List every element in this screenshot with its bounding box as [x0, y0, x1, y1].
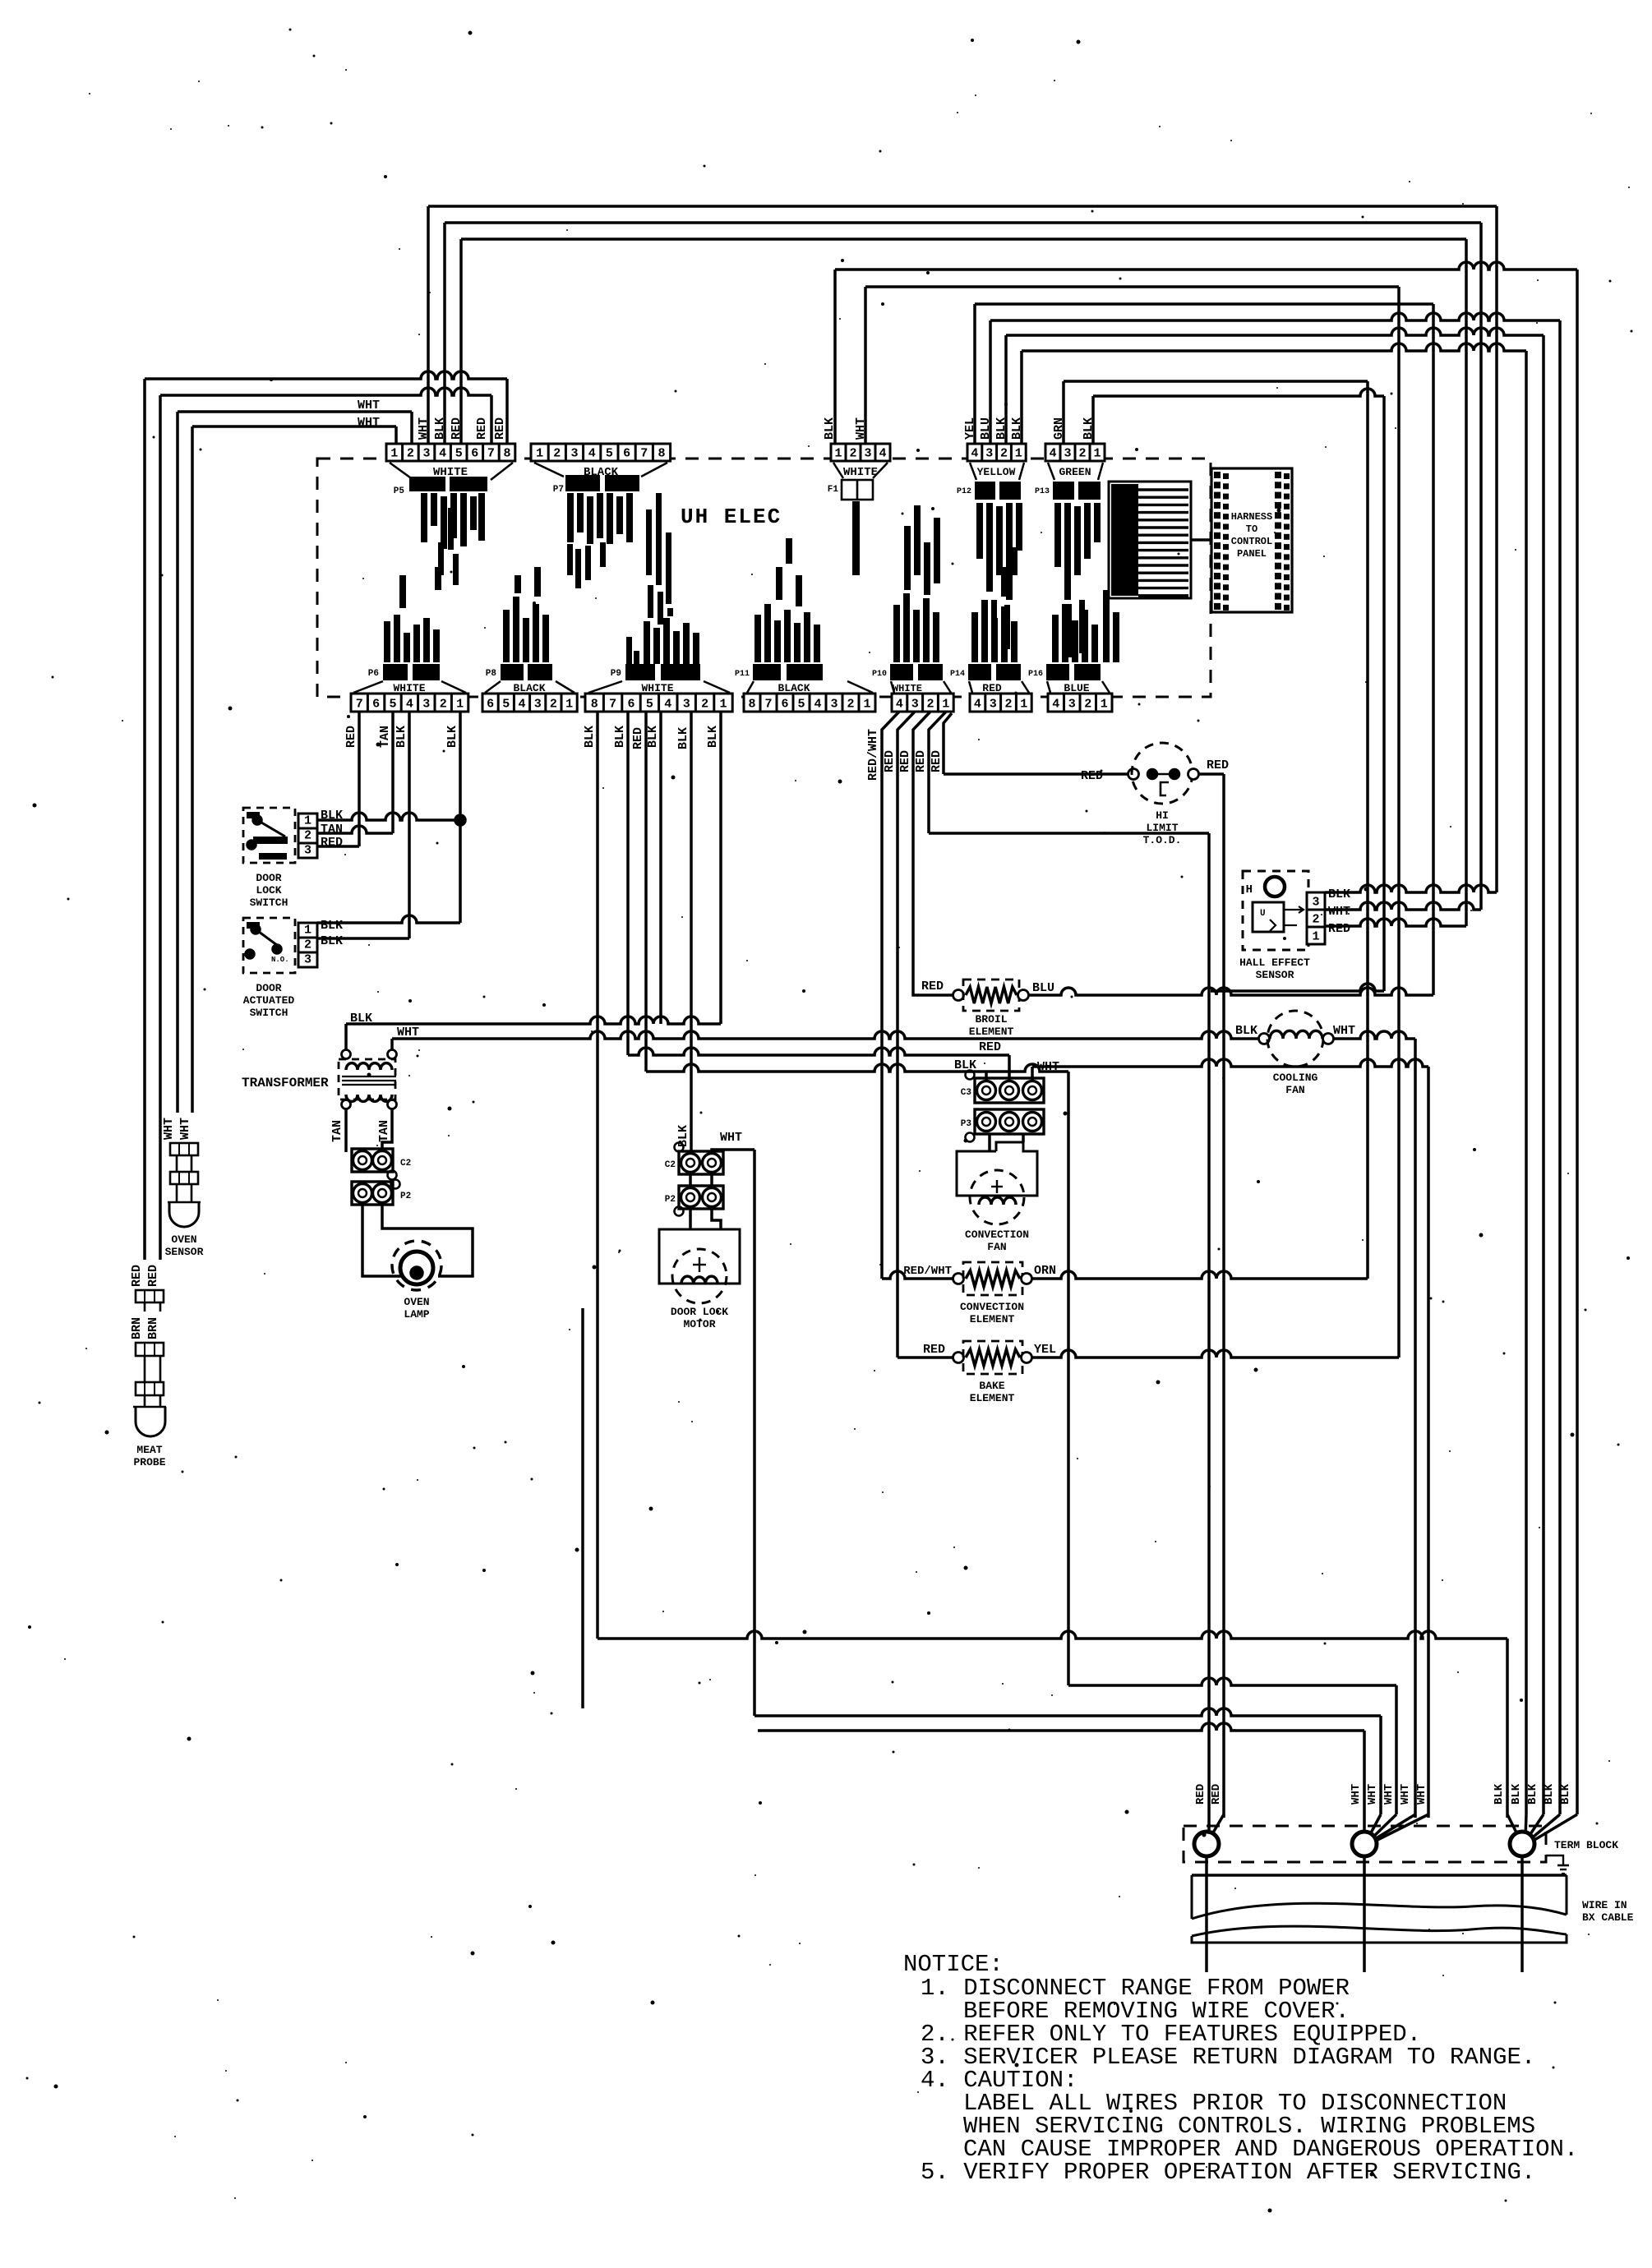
connector P14 wire text smudge [971, 612, 978, 662]
connector P7 wire text smudge [567, 493, 574, 542]
svg-text:1: 1 [942, 698, 949, 712]
svg-text:YEL: YEL [963, 417, 977, 440]
wire RED/WHT into convection element [882, 1271, 953, 1279]
svg-text:BAKE: BAKE [979, 1380, 1004, 1392]
svg-text:2: 2 [701, 698, 708, 712]
wire BLK run transformer to P9 pin1 [346, 1016, 721, 1024]
svg-text:1: 1 [834, 447, 842, 461]
svg-text:RED: RED [898, 750, 912, 772]
svg-text:WHT: WHT [1328, 905, 1350, 919]
hi-limit right terminal [1188, 769, 1199, 780]
wire RED long run from P10 pin1 to term block [929, 832, 1209, 835]
bake element left terminal [953, 1353, 964, 1363]
harness connector left pin column [1214, 472, 1229, 611]
connector P13 wire text smudge [1054, 503, 1061, 567]
svg-text:2: 2 [550, 698, 557, 712]
term block terminal 1 [1207, 1818, 1211, 1832]
svg-text:ORN: ORN [1034, 1264, 1056, 1278]
svg-text:4: 4 [406, 698, 413, 712]
svg-text:TAN: TAN [378, 726, 392, 748]
svg-text:GRN: GRN [1052, 417, 1066, 440]
svg-text:7: 7 [609, 698, 616, 712]
svg-text:3: 3 [1064, 447, 1071, 461]
wire run lower WHT to term block [758, 1723, 1364, 1731]
svg-text:OVEN: OVEN [171, 1233, 196, 1246]
svg-text:BLK: BLK [1082, 417, 1096, 440]
svg-text:ACTUATED: ACTUATED [243, 994, 295, 1007]
svg-text:WHT: WHT [1415, 1784, 1428, 1805]
svg-text:P16: P16 [1028, 670, 1043, 679]
svg-text:BLK: BLK [321, 934, 343, 948]
wire YEL from P12 to right vertical to broil element [973, 304, 976, 444]
svg-text:DOOR LOCK: DOOR LOCK [671, 1306, 728, 1318]
wire RED from P10 pin2 down to broil element [913, 712, 953, 995]
svg-text:RED: RED [930, 750, 944, 772]
svg-text:WHT: WHT [1399, 1784, 1412, 1805]
svg-text:TAN: TAN [377, 1120, 391, 1142]
svg-text:3: 3 [422, 698, 430, 712]
svg-text:LOCK: LOCK [256, 884, 281, 897]
svg-text:BLK: BLK [954, 1058, 976, 1072]
connector P7 strip BLACK pins 1-8 [531, 444, 671, 461]
svg-text:1: 1 [863, 698, 870, 712]
svg-text:RED/WHT: RED/WHT [903, 1265, 952, 1278]
wire run to C3 connector RED [628, 1048, 1009, 1055]
door actuated switch pin box [298, 923, 317, 938]
svg-text:6: 6 [781, 698, 788, 712]
meat probe connector box 1 [136, 1290, 164, 1302]
svg-text:RED: RED [979, 1040, 1001, 1054]
transformer WHT wire [390, 1039, 394, 1054]
door lock switch pin box [298, 814, 317, 828]
svg-text:BRN: BRN [146, 1317, 160, 1339]
svg-text:8: 8 [591, 698, 598, 712]
svg-text:C2: C2 [400, 1159, 411, 1169]
wire BLK from P6 pin1 down to door switches junction [459, 712, 462, 923]
svg-text:1: 1 [1101, 698, 1108, 712]
wire WHT from F1 pin3 to right vertical to bake element [864, 287, 867, 444]
svg-text:RED: RED [923, 1343, 945, 1357]
svg-text:YEL: YEL [1034, 1343, 1056, 1357]
cooling fan left terminal [1259, 1034, 1270, 1044]
svg-text:2: 2 [1078, 447, 1086, 461]
svg-text:HALL EFFECT: HALL EFFECT [1239, 957, 1310, 969]
wire RED from hi-limit right to term block [1199, 772, 1224, 776]
svg-text:1: 1 [390, 447, 398, 461]
connector P5 strip WHITE pins 1-8 [386, 444, 515, 461]
wire from P2 left down to oven lamp [362, 1203, 403, 1276]
svg-text:BLK: BLK [1543, 1783, 1556, 1805]
broil element right terminal [1018, 990, 1029, 1001]
wire RED from P5 pin 7 to far-left vertical [160, 388, 491, 395]
svg-text:CONVECTION: CONVECTION [965, 1228, 1029, 1241]
svg-text:WHT: WHT [854, 417, 868, 440]
svg-text:ELEMENT: ELEMENT [969, 1026, 1014, 1038]
svg-text:RED: RED [493, 417, 507, 440]
cooling fan right terminal [1323, 1034, 1334, 1044]
svg-text:RED: RED [344, 726, 358, 748]
svg-text:BLK: BLK [1235, 1024, 1257, 1038]
svg-text:CONVECTION: CONVECTION [960, 1301, 1024, 1313]
oven lamp dashed circle [392, 1241, 441, 1290]
connector P12 fan lines [970, 463, 976, 480]
svg-text:TAN: TAN [330, 1120, 344, 1142]
svg-text:RED: RED [146, 1265, 160, 1287]
svg-text:1: 1 [304, 814, 311, 828]
svg-text:RED/WHT: RED/WHT [866, 729, 880, 781]
svg-text:SWITCH: SWITCH [250, 897, 288, 909]
broil element left terminal [953, 990, 964, 1001]
harness link wire [1191, 538, 1211, 542]
svg-text:F1: F1 [828, 485, 839, 495]
convection element resistor [966, 1270, 1020, 1287]
svg-text:2: 2 [304, 829, 311, 843]
svg-text:BLK: BLK [1526, 1783, 1539, 1805]
svg-text:FAN: FAN [1285, 1084, 1304, 1096]
wire BLK from F1 pin1 to right vertical to terminal block [833, 270, 837, 444]
svg-text:8: 8 [658, 447, 665, 461]
wire BLK door actuated row 2 [317, 937, 409, 940]
hi-limit left terminal [1128, 769, 1139, 780]
hall effect chip box [1253, 902, 1284, 932]
bake element resistor [966, 1349, 1020, 1366]
svg-text:5: 5 [389, 698, 396, 712]
svg-text:WHT: WHT [178, 1118, 192, 1140]
svg-text:RED: RED [475, 417, 489, 440]
svg-text:2: 2 [1000, 447, 1008, 461]
svg-text:BLK: BLK [583, 726, 597, 748]
svg-text:8: 8 [748, 698, 755, 712]
svg-text:BLK: BLK [676, 1125, 690, 1147]
hi-limit contacts [1148, 770, 1157, 779]
svg-text:N.O.: N.O. [271, 956, 289, 964]
svg-text:4: 4 [971, 447, 978, 461]
wire BLK from P13 to right vertical [1091, 396, 1095, 444]
svg-text:GREEN: GREEN [1059, 466, 1091, 478]
connector P12 wire text smudge [976, 503, 983, 559]
svg-text:7: 7 [764, 698, 772, 712]
connector P12 strip YELLOW pins 4-1 [967, 444, 1026, 461]
svg-text:LAMP: LAMP [404, 1308, 429, 1321]
svg-text:1: 1 [565, 698, 573, 712]
connector F1 wire smudge [852, 501, 860, 575]
svg-text:4: 4 [1049, 447, 1056, 461]
connector P13 strip GREEN pins 4-1 [1045, 444, 1105, 461]
svg-text:2: 2 [407, 447, 414, 461]
wire RED into bake element [898, 1356, 953, 1359]
connector P11 wire text smudge [754, 615, 761, 662]
transformer BLK wire up to P9 run [344, 1024, 348, 1054]
wire BLU from P12 to right vertical to terminal block [989, 320, 992, 444]
term block angled wires into terminal 3 [1525, 1814, 1526, 1837]
svg-text:RED: RED [921, 980, 944, 993]
svg-text:BLK: BLK [321, 919, 343, 933]
wire GRN from P13 to right vertical to convection element [1062, 381, 1065, 444]
BX cable band [1192, 1874, 1567, 1877]
svg-text:P9: P9 [611, 669, 621, 679]
convection element left terminal [953, 1274, 964, 1284]
term block ground symbol [1546, 1855, 1563, 1865]
wire TAN from P6 pin5 down to door lock switch [391, 712, 395, 833]
svg-text:RED: RED [914, 750, 928, 772]
door lock motor body [659, 1229, 740, 1284]
wire BLK door actuated row 1 [317, 915, 460, 923]
svg-text:SWITCH: SWITCH [250, 1007, 288, 1019]
harness connector outer box [1211, 468, 1292, 612]
cooling fan dashed circle [1267, 1011, 1323, 1067]
connector P10 wire text smudge [893, 605, 900, 662]
door lock motor dashed circle [672, 1249, 727, 1303]
wire BLK from P9 pin8 down to bottom run [596, 712, 599, 1639]
oven sensor connector boxes [170, 1143, 198, 1155]
svg-text:C2: C2 [665, 1160, 676, 1170]
wire from P2 right around to oven lamp [382, 1203, 473, 1276]
hi-limit T.O.D. dashed circle [1132, 743, 1193, 804]
svg-text:1: 1 [1015, 447, 1022, 461]
svg-text:CONTROL: CONTROL [1231, 536, 1272, 547]
svg-text:WHT: WHT [1333, 1024, 1355, 1038]
wires through BX cable [1205, 1875, 1208, 1972]
svg-text:2: 2 [1312, 913, 1319, 927]
svg-text:P11: P11 [735, 670, 750, 679]
convection element right terminal [1022, 1274, 1032, 1284]
svg-text:P2: P2 [400, 1192, 411, 1201]
svg-text:8: 8 [503, 447, 510, 461]
transformer dashed box [339, 1059, 395, 1099]
svg-text:PANEL: PANEL [1237, 548, 1267, 560]
svg-text:BLK: BLK [433, 417, 447, 440]
wire RED from P10 pin1 down to long run [929, 712, 946, 833]
svg-text:RED: RED [1194, 1784, 1207, 1805]
wire TAN door lock switch row [317, 826, 393, 833]
svg-text:RED: RED [450, 417, 464, 440]
harness connector right pin column [1275, 472, 1290, 611]
svg-text:3: 3 [990, 698, 997, 712]
svg-text:4: 4 [896, 698, 903, 712]
connector F1 strip WHITE pins 1-4 [831, 444, 890, 461]
svg-text:4: 4 [664, 698, 671, 712]
svg-text:HARNESS: HARNESS [1231, 511, 1272, 523]
svg-text:2: 2 [553, 447, 561, 461]
svg-text:P2: P2 [665, 1195, 676, 1205]
svg-text:C3: C3 [961, 1088, 972, 1098]
svg-text:3: 3 [534, 698, 542, 712]
svg-text:BLK: BLK [706, 726, 720, 748]
svg-text:1: 1 [304, 924, 311, 938]
meat probe connector box 3 [136, 1382, 164, 1395]
wire BLK from P12 to right vertical to terminal block [1004, 335, 1008, 444]
wires P3 to convection fan motor [988, 1134, 991, 1151]
wire RED from P10 edge down to hi-limit [944, 713, 952, 774]
wire RED door lock switch row [317, 845, 359, 848]
wire WHT transformer run to cooling fan [392, 1031, 1259, 1039]
svg-text:WHT: WHT [358, 416, 380, 430]
wire RED from P10 pin3 down to bake element [898, 712, 915, 1358]
transformer terminals [342, 1050, 351, 1059]
convection fan dashed circle [970, 1170, 1024, 1224]
svg-text:TO: TO [1246, 523, 1257, 535]
wire BLK from P6 pin4 down to door actuated switch [408, 712, 411, 938]
cooling fan coil [1270, 1030, 1322, 1039]
meat probe bulb [144, 1395, 146, 1407]
svg-text:WHT: WHT [397, 1026, 419, 1039]
connector P7 fan lines [534, 463, 564, 477]
svg-text:BRN: BRN [130, 1317, 144, 1339]
svg-text:H: H [1246, 883, 1253, 897]
svg-text:6: 6 [471, 447, 478, 461]
svg-text:BLK: BLK [676, 727, 690, 749]
svg-text:MEAT: MEAT [136, 1444, 162, 1456]
wire WHT from P5 pin 2 to left vertical [178, 410, 412, 413]
svg-text:3: 3 [985, 447, 993, 461]
svg-text:2: 2 [304, 938, 311, 952]
svg-text:1: 1 [1020, 698, 1027, 712]
svg-text:U: U [1260, 909, 1266, 919]
svg-text:BLK: BLK [1559, 1783, 1572, 1805]
connector P5 wire text smudge [421, 493, 427, 542]
svg-text:7: 7 [356, 698, 363, 712]
svg-text:2: 2 [1084, 698, 1091, 712]
svg-text:4: 4 [439, 447, 446, 461]
wire RED from P9 pin6 down to convection fan run [644, 712, 648, 1072]
svg-text:3: 3 [683, 698, 690, 712]
hall effect sensor dashed box [1243, 871, 1308, 950]
oven sensor bulb [176, 1184, 178, 1202]
svg-text:WHT: WHT [358, 399, 380, 413]
svg-text:BLK: BLK [1328, 887, 1350, 901]
connector P16 wire text smudge [1052, 615, 1059, 662]
svg-text:4: 4 [814, 698, 821, 712]
svg-text:6: 6 [627, 698, 634, 712]
connector P8 wire text smudge [503, 610, 510, 662]
svg-text:P12: P12 [957, 487, 971, 496]
svg-text:3: 3 [304, 844, 311, 858]
svg-text:FAN: FAN [987, 1241, 1006, 1253]
term block angled wires into terminal 2 [1368, 1814, 1381, 1839]
svg-text:DOOR: DOOR [256, 982, 281, 994]
svg-text:P7: P7 [553, 485, 564, 495]
svg-text:3: 3 [864, 447, 871, 461]
svg-text:TRANSFORMER: TRANSFORMER [242, 1076, 329, 1090]
transformer windings [346, 1063, 392, 1070]
svg-text:WHT: WHT [1366, 1784, 1379, 1805]
svg-text:WHT: WHT [1350, 1784, 1363, 1805]
svg-text:BLK: BLK [613, 726, 627, 748]
convection fan motor body [957, 1142, 1037, 1196]
svg-text:UH ELEC: UH ELEC [681, 505, 782, 529]
svg-text:5: 5 [646, 698, 653, 712]
svg-text:1: 1 [719, 698, 727, 712]
svg-text:BLK: BLK [823, 417, 837, 440]
svg-text:6: 6 [372, 698, 380, 712]
door actuated switch contacts [247, 922, 260, 929]
svg-text:3: 3 [570, 447, 578, 461]
svg-text:P5: P5 [394, 486, 405, 496]
svg-text:5. VERIFY PROPER OPERATION AFT: 5. VERIFY PROPER OPERATION AFTER SERVICI… [921, 2159, 1535, 2186]
connector P9 wire text smudge [644, 621, 650, 664]
svg-text:3: 3 [1068, 698, 1076, 712]
svg-text:5: 5 [606, 447, 613, 461]
svg-text:P13: P13 [1035, 487, 1050, 496]
svg-text:SENSOR: SENSOR [1256, 969, 1294, 981]
door lock switch contacts [247, 812, 260, 818]
svg-text:BLU: BLU [979, 417, 993, 440]
svg-text:TERM BLOCK: TERM BLOCK [1554, 1839, 1618, 1851]
svg-text:3: 3 [1312, 896, 1319, 910]
connector F1 fan lines [833, 463, 843, 478]
svg-text:P3: P3 [961, 1119, 972, 1129]
wire run from P16 to term block WHT [1068, 1678, 1396, 1685]
svg-text:3: 3 [304, 953, 311, 967]
bake element dashed box [963, 1341, 1022, 1374]
svg-text:RED: RED [1210, 1784, 1223, 1805]
convection element dashed box [963, 1262, 1022, 1295]
svg-text:YELLOW: YELLOW [977, 466, 1016, 478]
svg-text:BLK: BLK [445, 726, 459, 748]
wire run from P9 pin8 to term block BLK [598, 1631, 1507, 1639]
wires P2 to door lock motor body [689, 1209, 692, 1229]
svg-text:4: 4 [1052, 698, 1059, 712]
harness ribbon hatched block [1109, 482, 1191, 598]
svg-text:3: 3 [830, 698, 838, 712]
svg-text:ELEMENT: ELEMENT [970, 1392, 1015, 1404]
door actuated switch dashed box [243, 918, 295, 973]
meat probe connector box 2 [136, 1343, 164, 1356]
hall effect connector pins 3,2,1 [1307, 892, 1325, 910]
wire BLK P5 pin4 top run to hall sensor WHT [443, 223, 446, 444]
wire BLK door lock switch row [317, 813, 455, 820]
bake element right terminal [1022, 1353, 1032, 1363]
svg-text:HI: HI [1156, 809, 1169, 822]
svg-text:DOOR: DOOR [256, 872, 281, 884]
term block dashed outline [1184, 1826, 1546, 1862]
term block terminal 2 [1352, 1832, 1377, 1856]
wire RED to hi-limit left [944, 772, 1128, 776]
svg-text:4: 4 [974, 698, 981, 712]
svg-text:5: 5 [455, 447, 463, 461]
wire BLK from P9 pin1 down to transformer run [719, 712, 722, 1024]
svg-text:1: 1 [1093, 447, 1101, 461]
svg-text:7: 7 [487, 447, 495, 461]
svg-text:WIRE IN: WIRE IN [1582, 1899, 1627, 1911]
UH ELEC control board dashed outline [317, 459, 1211, 697]
svg-text:P14: P14 [950, 670, 965, 679]
svg-text:RED: RED [883, 750, 897, 772]
svg-text:RED: RED [631, 727, 645, 749]
wire stub dashed-box edge run above broil [1211, 984, 1384, 991]
svg-text:RED: RED [1328, 922, 1350, 936]
svg-text:2: 2 [1004, 698, 1012, 712]
svg-text:2: 2 [440, 698, 447, 712]
svg-text:OVEN: OVEN [404, 1296, 429, 1308]
wire run from door motor WHT to term block [754, 1708, 1381, 1716]
wire BLK from P9 pin7 down to convection fan run [626, 712, 630, 1055]
svg-text:BLK: BLK [646, 726, 660, 748]
svg-text:3: 3 [911, 698, 919, 712]
svg-text:3: 3 [422, 447, 430, 461]
svg-text:BLK: BLK [395, 726, 408, 748]
svg-text:6: 6 [623, 447, 630, 461]
svg-text:BLK: BLK [1510, 1783, 1523, 1805]
svg-text:BLK: BLK [1493, 1783, 1506, 1805]
connector P2 transformer side [352, 1182, 393, 1205]
svg-text:BX CABLE: BX CABLE [1582, 1911, 1634, 1924]
wire run to C3 connector BLK and down to term block [646, 1064, 1068, 1072]
wire RED P5 pin5 top run to hall sensor RED [459, 239, 463, 444]
svg-text:6: 6 [487, 698, 494, 712]
svg-text:P10: P10 [872, 670, 887, 679]
links C2 to P2 door motor [689, 1174, 692, 1186]
